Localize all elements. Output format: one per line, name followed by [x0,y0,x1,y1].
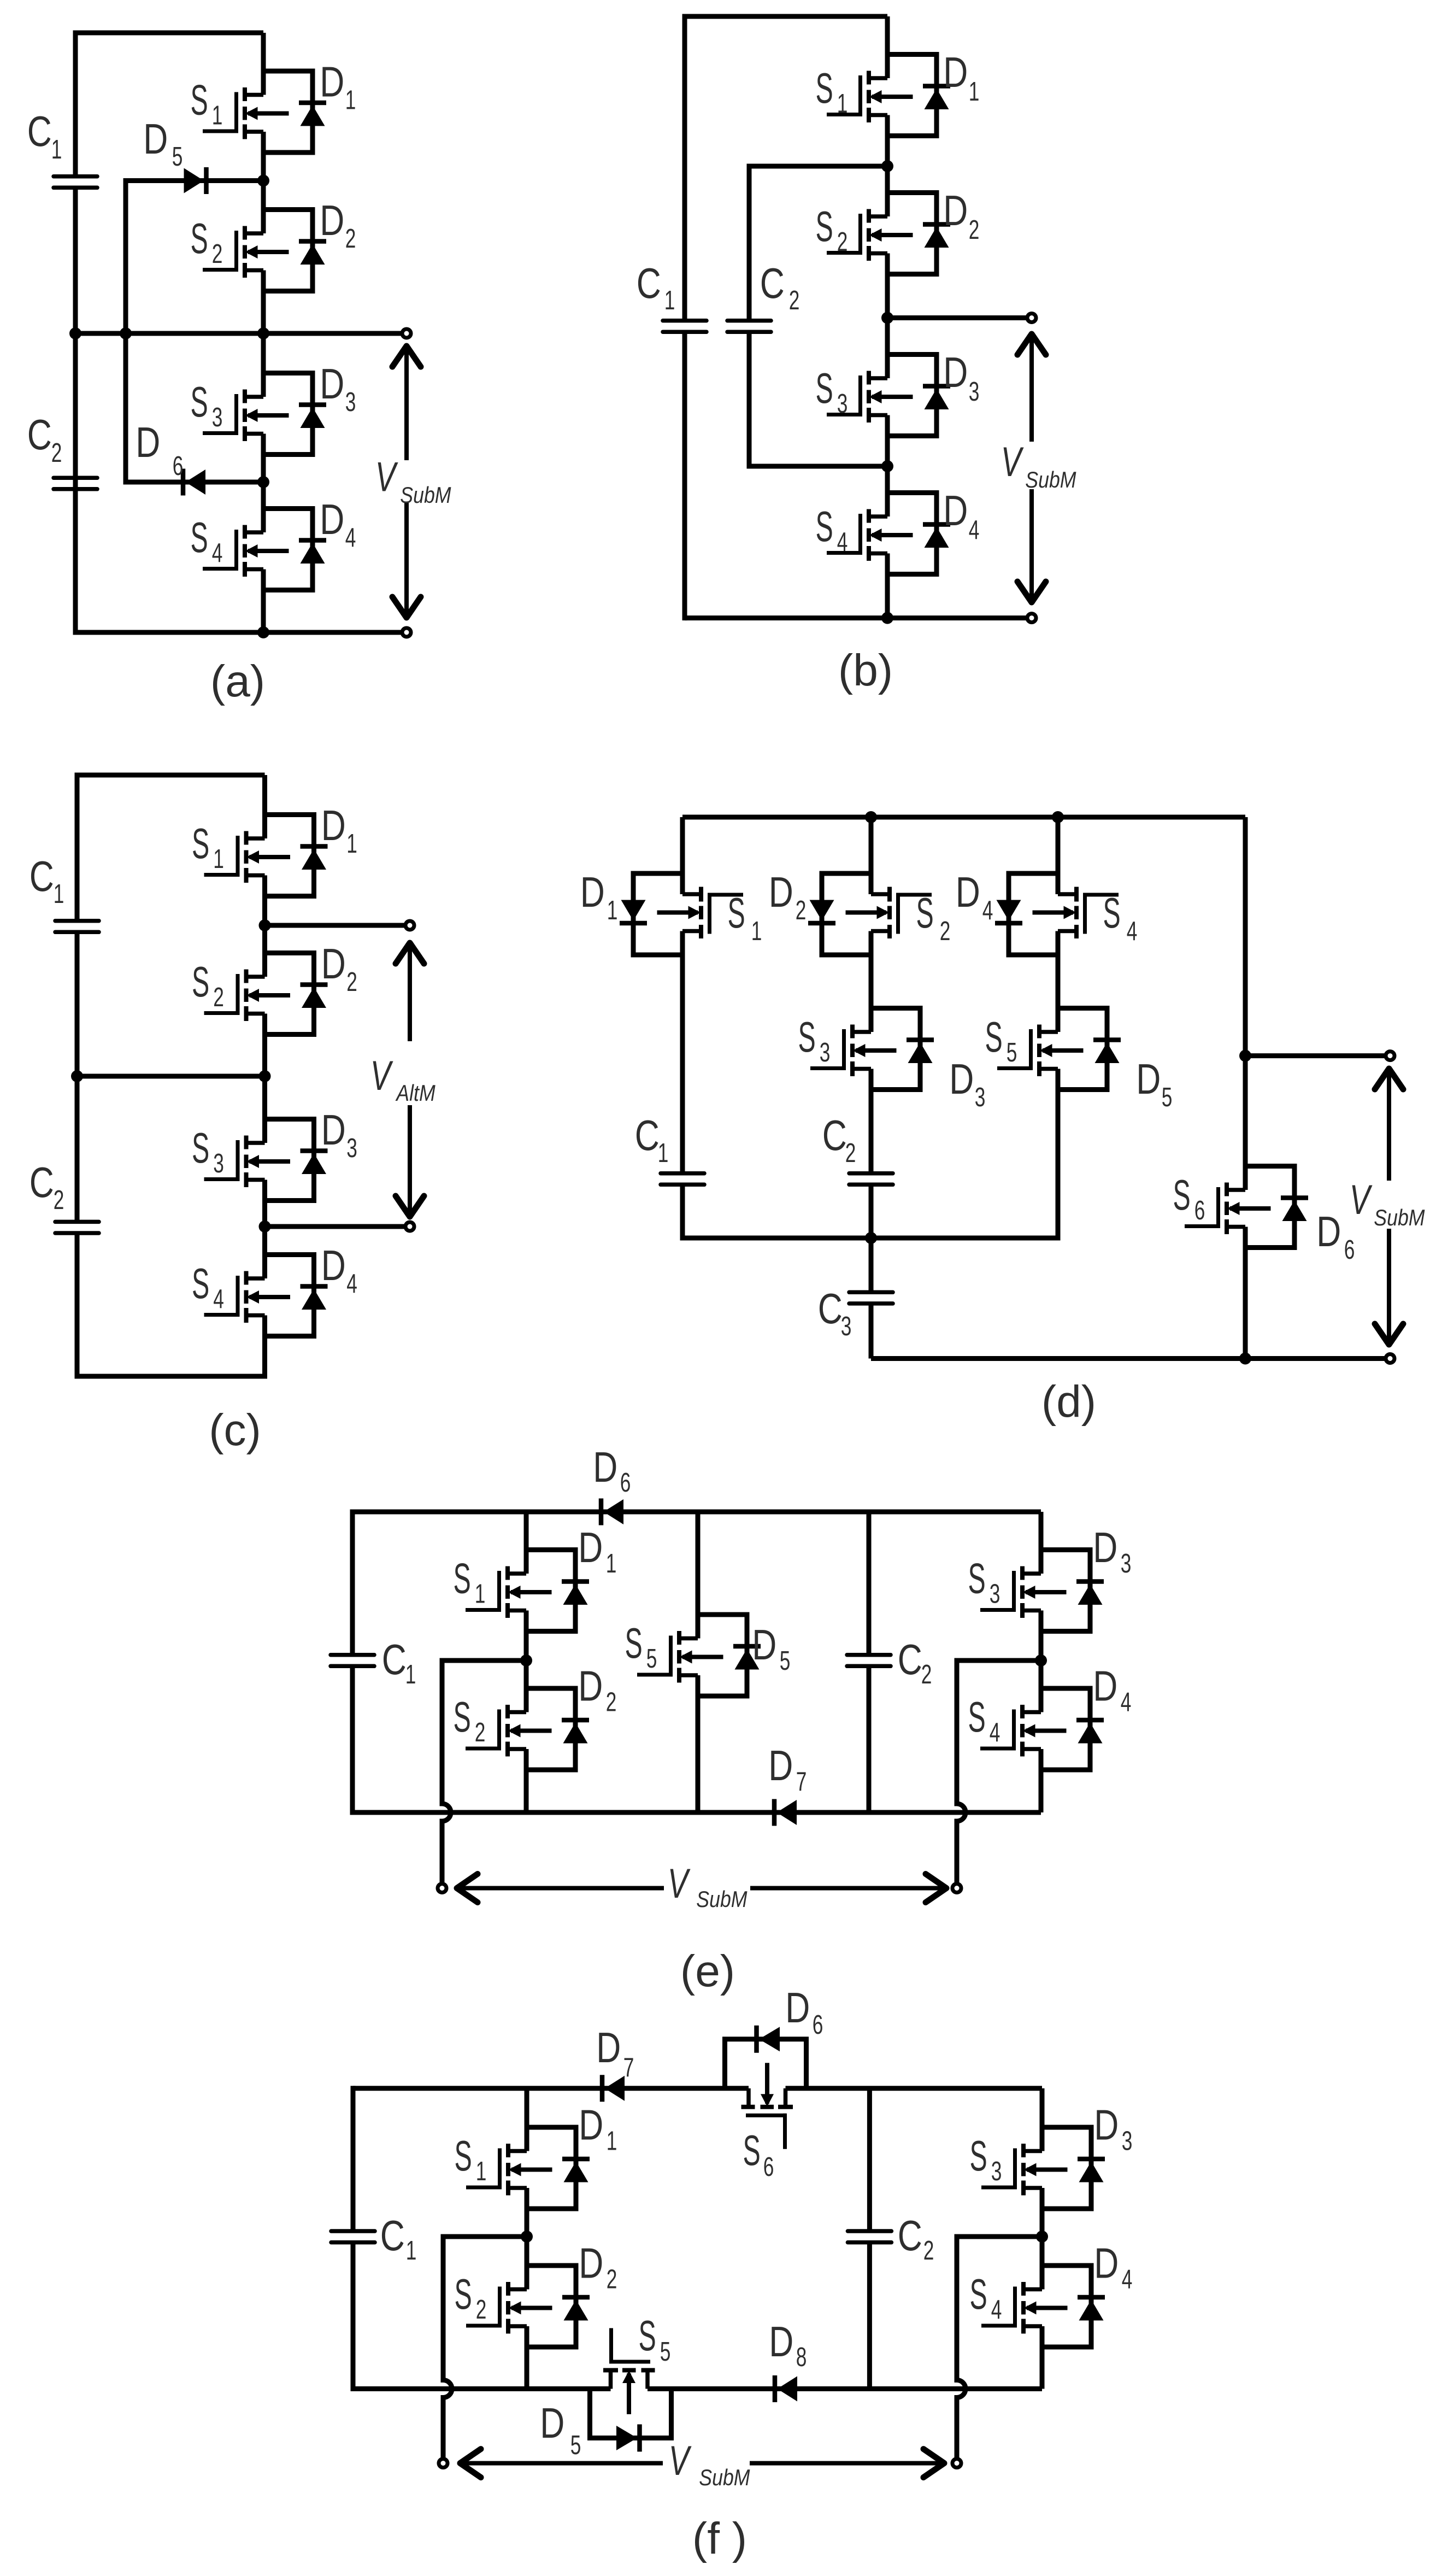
capacitor C1 (a) [54,177,97,188]
transistor S2 (d) [808,873,932,955]
svg-text:3: 3 [990,1579,1001,1609]
svg-text:8: 8 [796,2342,807,2372]
svg-text:C: C [380,2211,405,2259]
label D1 (b) [943,48,979,107]
node riser/mid junction (a) [120,327,132,339]
svg-text:S: S [985,1013,1003,1061]
label S2 (f) [455,2270,487,2325]
wire top rail (e) [352,1510,1041,1515]
terminal output+ (a) [402,329,411,338]
wire bottom rail (b) [685,615,1032,620]
svg-text:D: D [943,348,968,396]
wire output+ branch (e) [442,1658,526,1663]
svg-text:C: C [637,259,661,307]
svg-text:1: 1 [51,134,62,165]
measure arrow upper head (a) [392,346,421,367]
label S5 (e) [625,1619,657,1674]
measure arrow right shaft (e) [750,1886,946,1891]
svg-text:2: 2 [212,239,223,269]
wire S4-S5 (d) [1056,931,1061,1032]
wire riser D5-D6 (a) [123,178,128,485]
node top rail col2 (d) [865,811,877,823]
label V_SubM (a) [375,454,451,508]
transistor S3 (d) [810,1008,934,1090]
svg-text:2: 2 [921,1659,932,1689]
wire S3 drain (f) [1040,2088,1045,2151]
svg-text:4: 4 [982,895,993,925]
label C1 (a) [27,107,62,165]
svg-text:S: S [192,1124,209,1172]
wire left rail upper (a) [73,31,78,178]
capacitor C2 (c) [55,1222,99,1233]
label S4 (a) [191,513,223,568]
terminal output+ (d) [1386,1052,1394,1060]
wire bottom rail (c) [77,1374,265,1379]
svg-text:3: 3 [1121,1548,1132,1579]
svg-text:1: 1 [837,89,848,119]
wire S3-S4 (e) [1039,1611,1044,1712]
label S5 (f) [639,2311,671,2367]
svg-text:D: D [769,868,793,916]
svg-text:6: 6 [620,1468,631,1498]
label D6 (d) [1316,1207,1355,1265]
svg-text:1: 1 [406,2235,417,2266]
transistor S1 (f) [466,2127,590,2209]
svg-text:7: 7 [623,2052,634,2082]
svg-text:S: S [816,502,833,550]
svg-text:C: C [822,1111,847,1159]
label D4 (b) [943,486,979,545]
wire S4-bottom (e) [1039,1749,1044,1812]
svg-text:D: D [943,486,968,534]
measure arrow upper shaft (c) [408,943,412,1041]
svg-text:2: 2 [940,916,951,946]
svg-text:5: 5 [780,1646,791,1676]
svg-text:6: 6 [1344,1235,1355,1265]
wire S1-S2 (b) [885,115,890,217]
svg-text:1: 1 [969,77,980,107]
svg-text:D: D [943,186,968,234]
label S3 (e) [968,1554,1001,1609]
svg-text:(d): (d) [1041,1377,1096,1427]
svg-text:3: 3 [1122,2126,1133,2156]
measure arrow left head (f) [460,2449,481,2478]
svg-text:1: 1 [405,1659,416,1689]
svg-text:D: D [579,2101,603,2149]
wire top rail (d) [682,815,1245,820]
svg-text:D: D [1094,2101,1119,2149]
label C1 (f) [380,2211,417,2266]
svg-text:1: 1 [607,895,618,925]
svg-text:SubM: SubM [696,1887,748,1912]
terminal output- (d) [1386,1354,1394,1363]
wire main drain S1 (b) [885,16,890,78]
svg-text:S: S [191,214,208,262]
wire C3 to bottom (d) [869,1304,874,1359]
label S3 (b) [816,364,848,419]
svg-text:3: 3 [969,377,980,407]
measure arrow lower head (d) [1375,1324,1403,1345]
svg-text:3: 3 [841,1311,852,1341]
wire left rail lower (b) [682,332,687,621]
wire output+ to terminal (f) [441,2398,446,2463]
label C2 (e) [898,1635,932,1689]
wire S2-S3 (b) [885,254,890,379]
wire col2 top (d) [869,817,874,894]
node right/output+ junction (d) [1239,1050,1251,1062]
svg-text:SubM: SubM [1374,1205,1425,1230]
svg-text:D: D [956,868,980,916]
svg-text:2: 2 [475,1717,486,1747]
svg-text:5: 5 [660,2337,671,2367]
svg-text:S: S [1173,1171,1191,1219]
svg-text:2: 2 [606,1687,617,1717]
label C2 (f) [898,2211,934,2266]
terminal output+ (f) [439,2459,448,2468]
wire C2 lower (f) [867,2243,872,2389]
svg-text:D: D [579,2239,603,2287]
svg-text:(a): (a) [210,656,265,706]
wire main drain S1 (c) [262,775,267,838]
label D8 (f) [769,2317,807,2372]
wire col1 top (d) [680,817,685,894]
wire C2 branch upper (b) [747,164,752,321]
wire left rail lower (a) [73,187,78,635]
wire S3-S4 (b) [885,415,890,517]
wire output- vertical (f) [955,2234,960,2380]
svg-text:D: D [321,801,346,849]
svg-text:S: S [454,1554,471,1603]
wire hop over rail [442,1794,451,1831]
svg-text:D: D [1093,1662,1117,1710]
label D2 (d) [769,868,807,925]
svg-text:1: 1 [346,829,357,859]
measure arrow lower head (b) [1017,582,1046,602]
label S4 (e) [968,1693,1001,1747]
svg-text:4: 4 [1127,916,1138,946]
label D3 (e) [1093,1523,1131,1579]
node main/bottom junction (a) [257,626,269,638]
svg-text:S: S [192,819,209,867]
svg-text:D: D [785,1984,810,2031]
wire S1-S2 (f) [525,2188,529,2290]
transistor S4 (c) [204,1255,328,1336]
svg-text:S: S [191,378,208,426]
svg-text:S: S [743,2126,761,2174]
wire output- to terminal (e) [955,1821,960,1888]
capacitor C1 (b) [663,321,707,332]
wire D5 branch (a) [126,178,263,183]
svg-text:C: C [30,852,54,900]
transistor S1 (b) [827,55,950,136]
wire bottom right corner (c) [262,1316,267,1379]
svg-text:2: 2 [607,2264,617,2295]
label S2 (a) [191,214,223,269]
capacitor C2 (e) [847,1655,891,1667]
label S4 (d) [1103,889,1138,946]
label S3 (c) [192,1124,224,1178]
wire C2 lower (e) [867,1666,872,1812]
svg-text:1: 1 [658,1138,669,1168]
svg-text:D: D [320,196,344,244]
wire S4-bottom (f) [1040,2326,1045,2389]
wire S1 drain (e) [524,1512,529,1574]
wire S3-S4 (f) [1040,2188,1045,2290]
measure arrow left shaft (e) [457,1886,664,1891]
label S3 (f) [970,2132,1002,2186]
svg-text:D: D [321,1106,346,1153]
wire S3-S4 (a) [261,434,266,533]
label D1 (a) [320,58,356,115]
diode D6 (e) [601,1499,623,1525]
measure arrow right shaft (f) [750,2461,944,2466]
wire C2 branch lower (b) [747,332,752,469]
label V_SubM (e) [668,1861,748,1912]
label D3 (c) [321,1106,357,1163]
terminal output- (a) [402,628,411,637]
terminal output+ (c) [405,921,414,930]
label V_SubM (f) [669,2438,750,2491]
wire C1 to rail2 (d) [680,1184,685,1240]
terminal output- (e) [952,1884,961,1893]
node S1/S2 junction (f) [521,2231,533,2243]
svg-text:6: 6 [1194,1195,1205,1225]
node rail2 junction (d) [865,1232,877,1244]
label S4 (b) [816,502,848,557]
svg-text:S: S [192,958,209,1006]
wire S1-S2 (c) [262,876,267,977]
wire S2-bottom (f) [525,2326,529,2389]
label D3 (f) [1094,2101,1132,2156]
label S1 (c) [192,819,224,874]
wire output+ vertical (e) [440,1658,445,1804]
svg-text:D: D [321,940,346,987]
svg-text:4: 4 [1121,1687,1132,1717]
label S6 (f) [743,2126,774,2182]
label C2 (a) [27,410,62,468]
svg-text:S: S [1103,889,1121,937]
capacitor C3 (d) [849,1292,893,1304]
svg-text:S: S [192,1259,209,1307]
svg-text:4: 4 [991,2295,1002,2325]
svg-text:C: C [635,1111,660,1159]
label D2 (f) [579,2239,617,2295]
wire rail2 (d) [682,1236,1058,1241]
svg-text:S: S [625,1619,643,1667]
diode D7 (f) [602,2075,625,2102]
svg-text:1: 1 [606,1548,617,1579]
label S1 (b) [816,64,848,119]
wire main drain S1 (a) [261,33,266,95]
label V_AltM (c) [370,1053,435,1106]
svg-text:7: 7 [796,1767,807,1797]
svg-text:C: C [382,1635,407,1683]
wire top rail (b) [685,14,887,19]
svg-text:2: 2 [796,895,807,925]
svg-text:3: 3 [346,1133,357,1163]
wire bottom rail (e) [352,1810,1041,1815]
label D2 (b) [943,186,979,245]
svg-text:S: S [970,2132,987,2180]
wire S3-S4 (c) [262,1180,267,1279]
svg-text:S: S [455,2270,472,2318]
svg-text:C: C [27,410,52,458]
svg-text:2: 2 [476,2295,487,2325]
svg-text:2: 2 [845,1138,856,1168]
node S3/S4 junction (a) [257,476,269,488]
transistor S6 (d) [1185,1166,1308,1248]
wire left rail lower (f) [351,2243,356,2391]
svg-text:2: 2 [837,227,848,257]
svg-text:2: 2 [54,1185,64,1215]
transistor S1 (d) [620,873,743,955]
svg-text:4: 4 [990,1717,1001,1747]
svg-text:D: D [578,1662,603,1710]
wire S2-S3 (a) [261,271,266,397]
wire C2-bottom branch (b) [749,464,887,469]
transistor S3 (c) [204,1119,328,1201]
svg-text:(e): (e) [680,1946,735,1996]
wire S4-bottom (b) [885,554,890,618]
wire left rail lower (e) [350,1666,355,1815]
label D5 (f) [540,2399,581,2460]
wire S5 to rail2 (d) [1056,1069,1061,1241]
label C1 (b) [637,259,675,315]
svg-text:V: V [669,2438,692,2484]
wire output- branch (e) [957,1658,1041,1663]
label S3 (d) [798,1013,831,1067]
svg-text:C: C [30,1158,54,1206]
svg-text:C: C [898,2211,922,2259]
measure arrow lower shaft (a) [404,502,409,618]
capacitor C2 (f) [848,2231,891,2243]
label D6 (a) [136,418,183,481]
svg-text:4: 4 [346,1269,357,1299]
measure arrow lower shaft (d) [1387,1229,1391,1345]
svg-text:2: 2 [51,438,62,468]
svg-text:S: S [455,2132,472,2180]
measure arrow upper head (c) [396,943,424,964]
label S2 (c) [192,958,224,1012]
svg-text:SubM: SubM [400,483,451,508]
label C1 (d) [635,1111,669,1168]
measure arrow upper shaft (a) [404,346,409,460]
wire C2 to C3 (d) [869,1184,874,1292]
svg-text:3: 3 [975,1082,986,1112]
svg-text:1: 1 [475,1579,486,1609]
node S1/S2 junction (a) [257,175,269,187]
terminal output- (c) [405,1222,414,1231]
svg-text:D: D [596,2023,621,2071]
svg-text:5: 5 [646,1644,657,1674]
svg-text:S: S [816,364,833,412]
wire S4-bottom (a) [261,570,266,633]
wire bottom rail (a) [75,630,407,635]
svg-text:4: 4 [1122,2264,1133,2295]
wire left rail upper (b) [682,14,687,321]
wire S3 drain (e) [1039,1512,1044,1574]
wire D6 branch (a) [126,480,263,485]
transistor S3 (a) [203,373,326,455]
svg-text:S: S [970,2270,987,2318]
capacitor C1 (f) [331,2231,375,2243]
label D4 (d) [956,868,993,925]
wire output- (c) [265,1224,410,1229]
label S3 (a) [191,378,223,432]
svg-text:V: V [370,1053,393,1099]
label D4 (e) [1093,1662,1131,1717]
wire mid output (b) [887,315,1032,320]
label C3 (d) [818,1284,852,1341]
label S6 (d) [1173,1171,1205,1225]
svg-text:2: 2 [345,224,356,254]
capacitor C2 (a) [54,478,97,489]
wire output- vertical (e) [955,1658,960,1804]
label D2 (c) [321,940,357,997]
transistor S4 (f) [981,2266,1105,2347]
measure arrow lower head (c) [396,1196,424,1217]
svg-text:S: S [916,889,934,937]
svg-text:4: 4 [213,1284,224,1314]
node right/bottom junction (d) [1239,1353,1251,1365]
wire bottom rail (d) [871,1356,1390,1361]
label S1 (d) [728,889,762,946]
svg-text:D: D [1094,2239,1119,2287]
transistor S4 (d) [995,873,1119,955]
wire left rail lower (c) [75,1233,80,1379]
transistor S2 (b) [827,193,950,274]
wire S1-S2 (a) [261,132,266,233]
svg-text:3: 3 [345,387,356,417]
wire S1 drain (f) [525,2088,529,2151]
transistor S2 (a) [203,210,326,291]
svg-text:6: 6 [173,451,184,481]
wire left rail upper (c) [75,773,80,922]
wire S3 to C2 (d) [869,1069,874,1173]
svg-text:D: D [1136,1055,1161,1102]
svg-text:3: 3 [213,1148,224,1178]
wire hop over rail [957,1794,966,1831]
svg-text:5: 5 [172,142,183,172]
svg-text:D: D [752,1621,776,1668]
svg-text:SubM: SubM [1025,467,1076,492]
node S3/S4 junction (f) [1036,2231,1048,2243]
terminal output- (b) [1027,614,1036,623]
transistor S4 (e) [980,1688,1104,1770]
wire top rail (c) [77,773,265,778]
wire output+ vertical (f) [441,2234,446,2380]
transistor S1 (a) [203,71,326,152]
node left/mid junction (c) [71,1070,83,1082]
capacitor C2 (b) [727,321,771,332]
svg-text:V: V [1001,439,1024,485]
svg-text:5: 5 [1007,1037,1017,1067]
svg-text:D: D [593,1443,617,1491]
diode D8 (f) [775,2375,797,2402]
wire S5 drain (e) [696,1512,701,1639]
label D5 (e) [752,1621,790,1676]
label D7 (e) [768,1741,807,1797]
diode D7 (e) [774,1799,797,1826]
label C1 (e) [382,1635,416,1689]
label S2 (e) [454,1693,486,1747]
label D5 (d) [1136,1055,1172,1112]
measure arrow left shaft (f) [460,2461,663,2466]
label D6 (f) [785,1984,823,2040]
svg-text:D: D [136,418,160,466]
svg-text:(b): (b) [838,646,893,695]
label C2 (c) [30,1158,64,1215]
